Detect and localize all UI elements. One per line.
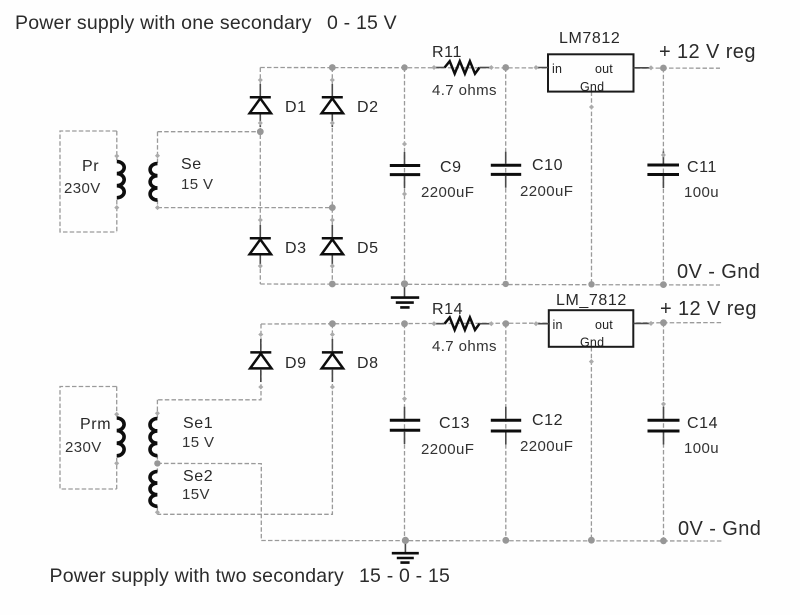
svg-text:C10: C10: [532, 157, 563, 174]
wire: bottom 0V rail (circuit 2): [261, 540, 722, 543]
svg-text:0V - Gnd: 0V - Gnd: [677, 261, 760, 283]
svg-text:15 V: 15 V: [182, 434, 214, 451]
resistor R11: [434, 61, 491, 73]
capacitor C9: [390, 152, 420, 188]
node: ground junction (circuit 2): [402, 537, 409, 544]
diode D1: [250, 84, 271, 127]
transformer secondary Se coil: [150, 164, 157, 201]
node: C9 top junction: [401, 64, 407, 70]
capacitor C11: [647, 152, 679, 189]
svg-text:4.7 ohms: 4.7 ohms: [432, 338, 497, 355]
svg-text:2200uF: 2200uF: [520, 438, 573, 455]
svg-text:Power supply with two seconda: Power supply with two secondary: [50, 565, 345, 587]
wire: Se1/Se2 coil stubs: [156, 400, 158, 515]
svg-text:C11: C11: [687, 159, 717, 176]
ground symbol (circuit 2): [392, 540, 419, 562]
svg-text:2200uF: 2200uF: [421, 184, 474, 201]
svg-text:D3: D3: [285, 240, 307, 257]
terminal markers circuit 1: [114, 65, 666, 269]
wire: top + rail (circuit 2): [261, 323, 722, 324]
wire: center tap to 0V rail: [157, 463, 261, 540]
diode D2: [322, 84, 343, 127]
svg-text:2200uF: 2200uF: [520, 183, 573, 200]
wire: C9 vertical leg: [404, 68, 406, 284]
wire: Se top to bridge midpoint left: [158, 131, 261, 133]
capacitor C12: [491, 407, 521, 445]
node: C14 bottom junction: [660, 537, 667, 544]
wire: right bridge leg vertical (D2/D5 column): [331, 68, 333, 285]
transformer primary Prm coil: [117, 418, 124, 456]
wire: D8 column vertical: [157, 324, 332, 515]
capacitor C14: [648, 407, 680, 445]
transformer secondary Se2 coil: [150, 472, 157, 507]
svg-text:D1: D1: [285, 99, 307, 116]
transformer primary Pr coil: [117, 162, 124, 198]
svg-text:D5: D5: [357, 240, 379, 257]
wire: Pr primary bracket: [60, 131, 117, 232]
wire: left bridge leg vertical (D1/D3 column): [259, 68, 261, 285]
wire: top + rail (circuit 1): [260, 67, 720, 70]
node: Gnd pin bottom junction (circuit 2): [588, 537, 595, 544]
regulator U2 LM_7812: [536, 310, 651, 349]
wire: C10 vertical leg: [505, 68, 507, 284]
svg-text:D2: D2: [357, 99, 379, 116]
node: C10 bottom junction: [503, 281, 509, 287]
diode D5: [322, 225, 343, 268]
svg-text:+ 12 V reg: + 12 V reg: [660, 298, 757, 320]
node: D2 top junction: [329, 64, 336, 71]
node: Se top / bridge left midpoint: [257, 128, 264, 135]
node: D5 bottom junction: [329, 281, 336, 288]
wire: C12 vertical leg: [505, 324, 507, 541]
node: C14 top junction: [660, 319, 667, 326]
node: D8 top junction: [329, 320, 336, 327]
svg-text:R11: R11: [432, 44, 462, 61]
svg-text:Se1: Se1: [183, 415, 213, 432]
svg-text:D9: D9: [285, 355, 307, 372]
diode D3: [250, 225, 271, 268]
svg-text:Se: Se: [181, 156, 202, 173]
capacitor C10: [491, 152, 521, 188]
svg-text:100u: 100u: [684, 184, 719, 201]
ground symbol (circuit 1): [391, 284, 419, 307]
svg-text:C14: C14: [687, 415, 718, 432]
diode D8: [322, 339, 343, 382]
svg-text:in: in: [553, 318, 563, 332]
resistor R14: [434, 317, 491, 330]
svg-text:Gnd: Gnd: [580, 80, 604, 94]
wire: D9 column vertical: [157, 324, 261, 400]
svg-text:Power supply with one seconda: Power supply with one secondary: [15, 12, 312, 34]
wire: Se bottom to bridge midpoint right: [158, 207, 333, 209]
wire: Pr coil stubs: [116, 131, 118, 232]
wire: C11 vertical leg: [662, 68, 664, 285]
node: C12 top junction: [502, 320, 509, 327]
capacitor C13: [390, 407, 420, 444]
svg-text:out: out: [595, 318, 613, 332]
wire: C13 vertical leg: [404, 324, 406, 541]
wire: bottom 0V rail (circuit 1): [260, 284, 720, 285]
svg-text:Prm: Prm: [80, 416, 111, 433]
node: C10 top junction: [502, 64, 509, 71]
svg-text:Pr: Pr: [82, 158, 99, 175]
svg-text:out: out: [595, 62, 613, 76]
svg-text:Se2: Se2: [183, 468, 213, 485]
svg-text:D8: D8: [357, 355, 379, 372]
terminal markers circuit 2: [114, 321, 666, 515]
node: C12 bottom junction: [502, 537, 509, 544]
svg-text:C13: C13: [439, 415, 470, 432]
svg-text:15 V: 15 V: [181, 176, 213, 193]
wire: LM_7812 ground pin to 0V rail: [590, 347, 592, 540]
svg-text:0V - Gnd: 0V - Gnd: [678, 518, 761, 540]
transformer secondary Se1 coil: [150, 418, 157, 455]
svg-text:+ 12 V reg: + 12 V reg: [659, 41, 756, 63]
wire: C14 vertical leg: [663, 323, 665, 541]
svg-text:230V: 230V: [64, 180, 101, 197]
svg-text:in: in: [552, 62, 562, 76]
wire: Prm coil stubs: [116, 387, 118, 490]
svg-text:LM_7812: LM_7812: [556, 292, 627, 309]
svg-text:Gnd: Gnd: [580, 336, 604, 350]
svg-text:C12: C12: [532, 412, 563, 429]
svg-text:100u: 100u: [684, 440, 719, 457]
wire: LM7812 ground pin to 0V rail: [591, 92, 593, 285]
node: C13 top junction: [401, 320, 408, 327]
svg-text:15V: 15V: [182, 486, 210, 503]
svg-text:2200uF: 2200uF: [421, 441, 474, 458]
node: C11 bottom junction: [660, 281, 667, 288]
svg-text:0 - 15 V: 0 - 15 V: [327, 12, 397, 34]
node: Se bottom / bridge right midpoint: [329, 204, 336, 211]
wire: Se coil stubs: [157, 132, 159, 208]
node: C11 top junction: [660, 65, 667, 72]
node: Se1/Se2 center tap: [154, 460, 160, 466]
node: ground junction: [401, 280, 408, 287]
wire: Prm primary bracket: [60, 387, 117, 490]
regulator U1 LM7812: [536, 54, 651, 94]
svg-text:C9: C9: [440, 159, 462, 176]
svg-text:230V: 230V: [65, 439, 102, 456]
svg-text:R14: R14: [432, 301, 463, 318]
diode D9: [250, 339, 271, 382]
node: Gnd pin bottom junction: [588, 281, 594, 287]
svg-text:15 - 0 - 15: 15 - 0 - 15: [359, 565, 450, 587]
svg-text:LM7812: LM7812: [559, 30, 620, 47]
svg-text:4.7 ohms: 4.7 ohms: [432, 82, 497, 99]
